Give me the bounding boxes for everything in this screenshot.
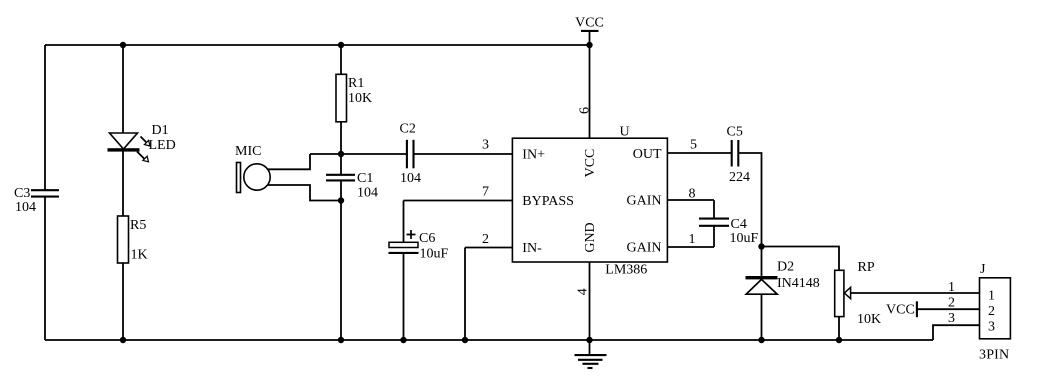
svg-text:1K: 1K [131, 248, 148, 263]
wire LED branch top [122, 45, 124, 133]
svg-text:2: 2 [948, 295, 955, 310]
capacitor C6 polarized [389, 230, 449, 262]
svg-text:GAIN: GAIN [627, 194, 662, 209]
connector J 3PIN [979, 262, 1010, 363]
svg-text:10uF: 10uF [420, 247, 449, 262]
capacitor C1 [326, 171, 378, 201]
svg-text:VCC: VCC [886, 302, 915, 317]
svg-text:104: 104 [357, 186, 378, 201]
svg-text:C4: C4 [731, 217, 747, 232]
VCC power tack right [886, 301, 917, 317]
svg-text:R1: R1 [348, 76, 364, 91]
wire connector pin3 to bottom rail [933, 325, 980, 340]
wire R5 to bottom rail [122, 263, 124, 340]
junction dot top rail / LED branch [120, 42, 126, 48]
wire pin3 row right [414, 153, 513, 155]
junction dot bottom D2 [758, 337, 764, 343]
capacitor C5 [727, 125, 751, 186]
ground symbol [575, 340, 607, 368]
wire LED to R5 [122, 152, 124, 217]
wire left vertical upper [44, 45, 46, 190]
svg-text:1: 1 [689, 232, 696, 247]
svg-text:5: 5 [690, 138, 697, 153]
diode D1 LED [108, 123, 176, 162]
wire pin5 row [667, 152, 731, 154]
svg-text:IN4148: IN4148 [777, 276, 820, 291]
wire pin1 row [667, 246, 714, 248]
wire node to C1 [340, 154, 342, 175]
svg-text:C6: C6 [419, 231, 435, 246]
svg-text:LM386: LM386 [605, 263, 647, 278]
resistor R1 [336, 74, 372, 122]
wire pin3 row left [310, 153, 407, 155]
svg-text:3: 3 [948, 311, 955, 326]
wire pin8 to C4 [713, 200, 715, 218]
wire MIC top lead [268, 154, 310, 169]
svg-text:R5: R5 [130, 218, 146, 233]
svg-text:D1: D1 [152, 123, 169, 138]
wire C4 to pin1 [713, 226, 715, 247]
wire IN- branch to bottom rail [464, 248, 466, 341]
svg-text:3: 3 [988, 319, 995, 334]
junction dot bottom center column [338, 337, 344, 343]
svg-text:1: 1 [948, 280, 955, 295]
svg-text:104: 104 [400, 171, 421, 186]
wire C6 top lead [403, 201, 405, 243]
svg-text:U: U [620, 124, 630, 139]
resistor R5 [118, 216, 148, 263]
svg-text:8: 8 [689, 186, 696, 201]
svg-text:VCC: VCC [583, 149, 598, 178]
wire left vertical lower [44, 197, 46, 340]
wire pin4 IC to ground rail [589, 262, 591, 340]
wire RP bottom to rail [838, 317, 840, 340]
svg-text:J: J [980, 262, 986, 277]
wire C5 to output node [739, 153, 762, 247]
svg-text:6: 6 [577, 107, 592, 114]
junction dot output node [758, 243, 764, 249]
svg-text:10K: 10K [857, 312, 881, 327]
svg-text:10uF: 10uF [730, 231, 759, 246]
svg-text:104: 104 [15, 200, 36, 215]
svg-text:RP: RP [858, 260, 875, 275]
svg-text:C5: C5 [727, 125, 743, 140]
wire bottom rail [45, 339, 933, 341]
wire pin6 VCC to IC [589, 45, 591, 138]
junction dot top rail / R1 branch [338, 42, 344, 48]
wire MIC bottom lead [268, 185, 342, 201]
svg-text:MIC: MIC [235, 144, 261, 159]
svg-text:LED: LED [149, 138, 176, 153]
wire VCC to connector pin2 [917, 308, 980, 310]
junction dot bottom pin4 [586, 337, 592, 343]
svg-text:224: 224 [729, 170, 750, 185]
capacitor C2 [400, 122, 422, 187]
wire output node to RP [762, 247, 840, 271]
svg-text:VCC: VCC [575, 16, 604, 31]
svg-text:C2: C2 [400, 122, 416, 137]
wire D2 to bottom rail [761, 294, 763, 340]
svg-text:3: 3 [482, 138, 489, 153]
svg-text:2: 2 [988, 304, 995, 319]
junction dot bottom C6 [400, 337, 406, 343]
wire R1 top [340, 45, 342, 74]
wire pin7 row [404, 200, 513, 202]
capacitor C4 [699, 217, 759, 246]
junction dot bottom R5 [120, 337, 126, 343]
svg-text:1: 1 [988, 288, 995, 303]
potentiometer RP [835, 260, 881, 327]
svg-text:IN-: IN- [522, 241, 542, 256]
junction dot bottom IN- [462, 337, 468, 343]
svg-text:7: 7 [482, 185, 489, 200]
op-amp U1 LM386 body [512, 124, 667, 277]
wire C1 bottom [340, 180, 342, 200]
svg-text:C1: C1 [357, 171, 373, 186]
svg-text:2: 2 [482, 232, 489, 247]
svg-text:10K: 10K [348, 91, 372, 106]
junction dot MIC bottom node [338, 197, 344, 203]
svg-text:GAIN: GAIN [627, 240, 662, 255]
svg-text:IN+: IN+ [522, 147, 545, 162]
wire top rail [45, 44, 590, 46]
capacitor C3 [14, 186, 59, 215]
svg-text:C3: C3 [14, 186, 30, 201]
diode D2 [746, 247, 820, 295]
VCC power symbol top [575, 16, 604, 45]
wire pin8 row [667, 199, 714, 201]
wire R1 bottom to node [340, 121, 342, 154]
svg-text:3PIN: 3PIN [979, 348, 1009, 363]
microphone MIC [235, 144, 270, 193]
wire C6 bottom lead [403, 253, 405, 340]
wire pin2 row [465, 247, 512, 249]
svg-text:BYPASS: BYPASS [522, 194, 574, 209]
svg-text:OUT: OUT [633, 147, 662, 162]
svg-text:GND: GND [583, 222, 598, 252]
junction dot bottom RP [836, 337, 842, 343]
svg-text:D2: D2 [777, 260, 794, 275]
wire center column to bottom rail [340, 201, 342, 341]
wire RP wiper to connector pin1 [851, 292, 980, 294]
svg-text:4: 4 [575, 288, 590, 295]
junction dot IN+ node [338, 151, 344, 157]
junction dot top rail / VCC [586, 42, 592, 48]
